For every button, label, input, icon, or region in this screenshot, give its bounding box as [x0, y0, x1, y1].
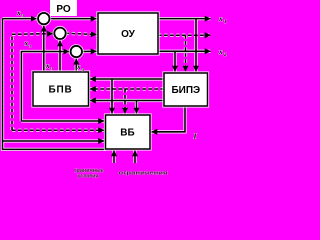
svg-text:РО: РО [56, 4, 71, 15]
svg-text:з: з [29, 45, 32, 50]
svg-text:x: x [45, 61, 50, 70]
svg-text:x: x [218, 14, 223, 23]
svg-text:x: x [16, 8, 21, 17]
svg-text:ВБ: ВБ [120, 128, 134, 139]
svg-text:ограничения: ограничения [119, 171, 168, 177]
svg-text:условия: условия [78, 174, 99, 180]
svg-text:БПВ: БПВ [49, 85, 73, 96]
svg-text:x: x [76, 62, 81, 71]
svg-text:з: з [81, 68, 84, 73]
svg-text:ОУ: ОУ [121, 29, 136, 40]
svg-text:з: з [50, 67, 53, 72]
svg-text:x: x [24, 39, 29, 48]
svg-text:2: 2 [223, 53, 227, 58]
svg-text:БИПЭ: БИПЭ [171, 85, 200, 96]
svg-text:з: з [21, 14, 24, 19]
svg-text:1: 1 [224, 20, 227, 25]
svg-text:x: x [218, 47, 223, 56]
